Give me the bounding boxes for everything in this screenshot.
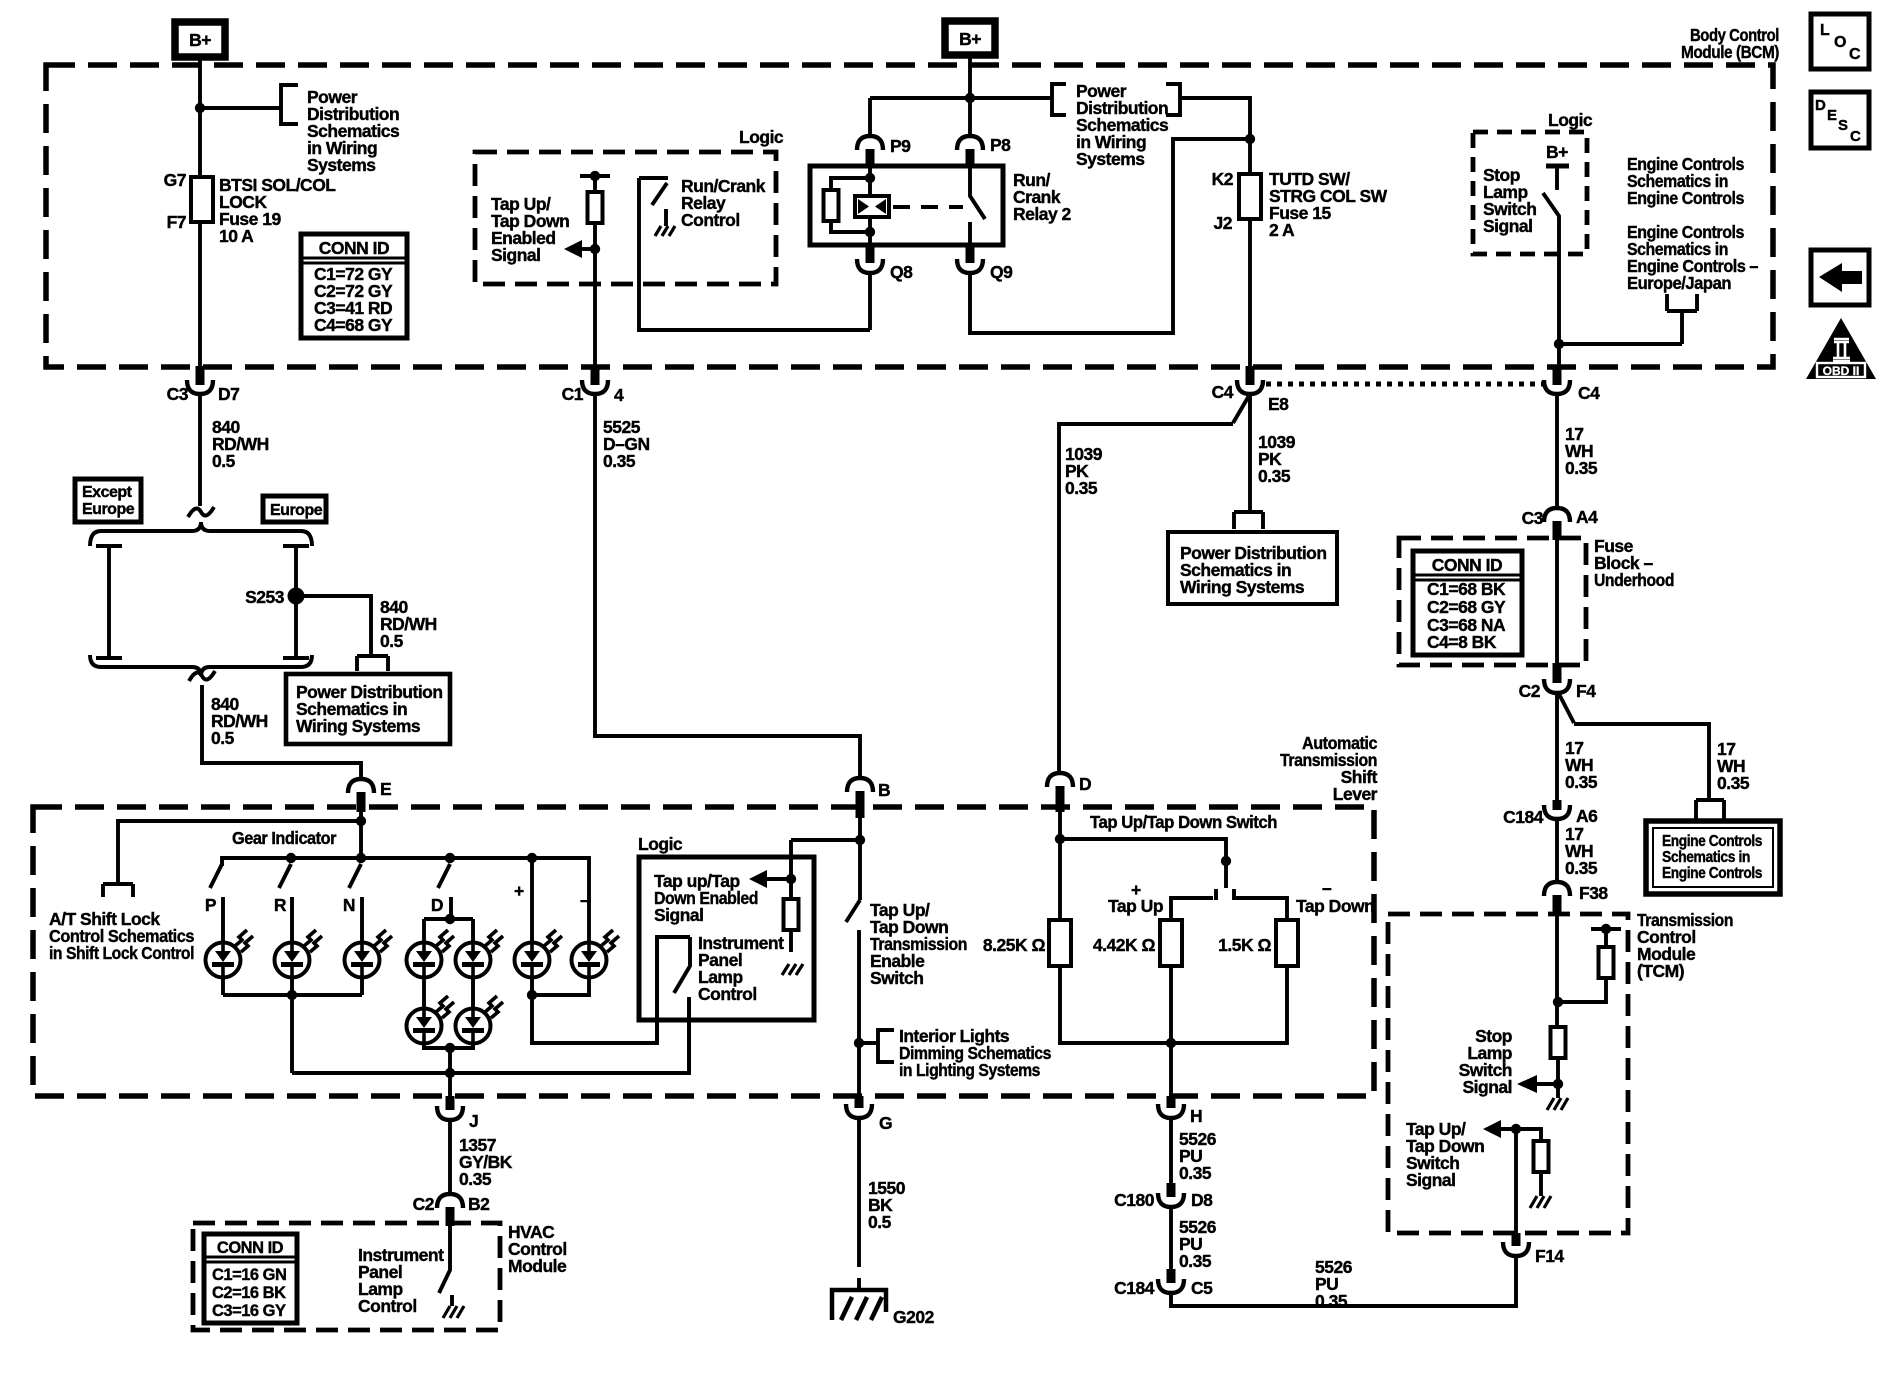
LED D1 — [407, 930, 455, 978]
svg-text:C: C — [1850, 128, 1861, 145]
svg-text:+: + — [514, 881, 524, 901]
svg-text:Europe/Japan: Europe/Japan — [1627, 273, 1731, 293]
svg-text:C: C — [1849, 46, 1861, 63]
wire D column to J — [448, 1073, 452, 1106]
svg-text:Lever: Lever — [1333, 784, 1378, 804]
resistor 1.5K — [1276, 920, 1298, 966]
wire to P9 and to bracket — [870, 98, 1052, 136]
junction interior lights — [854, 1038, 864, 1048]
svg-text:4: 4 — [614, 385, 624, 405]
svg-text:E: E — [1827, 107, 1837, 124]
svg-text:G: G — [879, 1113, 892, 1133]
box Power Distribution Schematics in Wiring Systems (middle) — [1168, 532, 1337, 604]
B+ power terminal 2 — [945, 21, 995, 55]
bracket to power distribution box (left) — [357, 656, 388, 671]
wire F38 into TCM — [1555, 914, 1559, 1027]
bracket Europe/Japan reference — [1667, 294, 1697, 344]
bracket to power distribution box — [1234, 510, 1263, 529]
switch Tap Up/Tap Down transmission enable — [846, 900, 860, 1096]
svg-text:Control: Control — [698, 984, 757, 1004]
wire 5526 PU (H to D8) — [1169, 1118, 1173, 1183]
wire branch to power distribution bracket — [200, 106, 281, 110]
Fuse Block - Underhood dashed box — [1399, 538, 1586, 665]
terminal bar of enabled-signal line — [580, 174, 610, 178]
svg-text:0.5: 0.5 — [868, 1212, 892, 1232]
node junction on B+1 wire — [195, 103, 205, 113]
svg-text:Signal: Signal — [1483, 216, 1533, 236]
svg-text:0.35: 0.35 — [1565, 458, 1598, 478]
CONN ID table (BCM) — [301, 234, 407, 338]
svg-text:0.5: 0.5 — [380, 631, 404, 651]
connector C184/A6 — [1503, 800, 1598, 827]
brace top — [90, 522, 312, 546]
svg-text:C184: C184 — [1503, 807, 1544, 827]
B+ power terminal 1 — [175, 22, 225, 57]
svg-text:–: – — [1322, 878, 1332, 898]
icon back-arrow box — [1811, 250, 1869, 305]
switch D — [438, 864, 451, 919]
svg-text:C184: C184 — [1114, 1278, 1155, 1298]
svg-text:Q9: Q9 — [990, 262, 1013, 282]
svg-text:G7: G7 — [164, 170, 186, 190]
relay switch — [970, 166, 985, 245]
rocker switch contacts — [1171, 889, 1287, 920]
svg-text:Underhood: Underhood — [1594, 570, 1674, 590]
LED R — [275, 930, 323, 978]
icon OBD II triangle — [1806, 318, 1876, 379]
wire 1357 GY/BK — [448, 1120, 452, 1193]
arrow tap up/tap down enabled signal — [590, 244, 600, 254]
ground G202 — [832, 1278, 935, 1327]
switch R — [279, 864, 292, 943]
resistor 4.42K — [1160, 920, 1182, 966]
svg-text:(TCM): (TCM) — [1637, 961, 1684, 981]
svg-text:Europe: Europe — [82, 501, 135, 518]
LED D4 — [456, 996, 504, 1044]
svg-text:0.35: 0.35 — [1565, 858, 1598, 878]
Logic solid box (instrument panel lamp control) — [639, 857, 814, 1020]
wire B+2 down — [968, 57, 972, 98]
svg-text:0.5: 0.5 — [211, 728, 235, 748]
svg-text:Signal: Signal — [654, 905, 704, 925]
wire to H — [1169, 1043, 1173, 1096]
connector C180/D8 — [1114, 1183, 1213, 1210]
ground (TCM tap signal) — [1530, 1196, 1551, 1208]
wire bracket to K2 riser — [1180, 98, 1250, 139]
switch stop lamp — [1543, 193, 1559, 344]
svg-text:Systems: Systems — [1076, 149, 1145, 169]
icon DESC box — [1811, 92, 1869, 148]
connector P8 — [957, 98, 1011, 166]
LED plus — [515, 930, 563, 978]
svg-text:N: N — [343, 895, 355, 915]
svg-text:0.35: 0.35 — [1258, 466, 1291, 486]
break symbol (below brace) — [189, 671, 215, 681]
svg-text:B+: B+ — [959, 29, 981, 49]
connector C1/4 — [562, 366, 624, 405]
svg-text:Relay 2: Relay 2 — [1013, 204, 1072, 224]
svg-text:C1=16 GN: C1=16 GN — [212, 1266, 286, 1284]
svg-text:C180: C180 — [1114, 1190, 1155, 1210]
wire run/crank relay control output to Q8 — [639, 178, 870, 330]
fuse Fuse 19 10A (BTSI SOL/COL LOCK) — [191, 177, 213, 222]
switch instrument panel lamp control (HVAC) — [439, 1226, 452, 1306]
svg-text:Wiring Systems: Wiring Systems — [296, 716, 421, 736]
svg-text:Engine Controls: Engine Controls — [1662, 833, 1763, 850]
connector C2/F4 — [1519, 663, 1597, 701]
Logic dashed box (stop lamp switch signal) — [1473, 132, 1587, 254]
wire B+1 down to fuse 19 — [198, 59, 202, 366]
svg-text:Schematics in: Schematics in — [1662, 849, 1750, 866]
svg-text:J: J — [469, 1111, 478, 1131]
svg-text:Europe: Europe — [270, 502, 323, 519]
bracket to engine controls box — [1696, 800, 1724, 820]
svg-text:CONN ID: CONN ID — [319, 238, 389, 258]
alternate path right (Europe) with splice S253 — [283, 546, 309, 658]
TCM pull-up resistor — [1591, 929, 1621, 947]
connector F14 — [1503, 1233, 1564, 1266]
svg-text:B: B — [878, 780, 890, 800]
wire 1550 BK to G202 — [857, 1118, 861, 1267]
svg-text:Switch: Switch — [870, 968, 923, 988]
connector F38 — [1544, 882, 1608, 914]
svg-text:C2=68 GY: C2=68 GY — [1427, 597, 1506, 617]
wire stop lamp logic to C4 — [1559, 344, 1682, 366]
connector H — [1158, 1096, 1202, 1126]
svg-text:D: D — [431, 895, 443, 915]
Logic dashed box (Run/Crank relay control) — [475, 152, 776, 284]
gear indicator cathode bus (P R N) — [223, 993, 362, 997]
LED minus — [572, 930, 620, 978]
svg-text:Logic: Logic — [638, 834, 683, 854]
CONN ID table (HVAC) — [204, 1234, 297, 1323]
svg-text:S: S — [1838, 117, 1848, 134]
svg-text:Tap Down: Tap Down — [1296, 896, 1374, 916]
wire B to transmission enable switch — [858, 818, 862, 900]
svg-text:–: – — [580, 890, 590, 910]
svg-text:C3=16 GY: C3=16 GY — [212, 1302, 286, 1320]
svg-text:F14: F14 — [1535, 1246, 1564, 1266]
svg-text:Module: Module — [508, 1256, 567, 1276]
svg-text:0.35: 0.35 — [459, 1169, 492, 1189]
wire + column — [530, 858, 534, 943]
switch P — [210, 864, 223, 943]
connector Q8 — [857, 245, 913, 330]
resistor 8.25K — [1049, 920, 1071, 966]
svg-text:Tap Up: Tap Up — [1108, 896, 1163, 916]
wire 17 WH (A6 to F38) — [1555, 819, 1559, 880]
svg-text:8.25K Ω: 8.25K Ω — [983, 935, 1046, 955]
svg-text:Except: Except — [82, 484, 133, 501]
svg-text:Wiring Systems: Wiring Systems — [1180, 577, 1305, 597]
svg-text:G202: G202 — [893, 1307, 935, 1327]
TCM tap signal resistor — [1534, 1141, 1549, 1172]
wire +/- bus to lamp control switch — [532, 937, 690, 1043]
svg-text:C3: C3 — [1522, 508, 1544, 528]
wire 5526 PU to F14 — [1171, 1256, 1516, 1306]
arrow stop lamp switch signal — [1536, 1082, 1558, 1086]
svg-text:C4: C4 — [1212, 382, 1234, 402]
svg-text:R: R — [274, 895, 287, 915]
connector C3/A4 — [1522, 507, 1599, 540]
svg-text:D8: D8 — [1191, 1190, 1213, 1210]
svg-text:J2: J2 — [1214, 213, 1233, 233]
wire 5526 PU (D8 to C5) — [1169, 1207, 1173, 1269]
arrow tap up/tap down enabled signal out — [749, 870, 767, 888]
svg-text:B+: B+ — [189, 30, 211, 50]
dotted connector line between C4 cavities — [1266, 382, 1543, 387]
svg-text:Signal: Signal — [1406, 1170, 1456, 1190]
relay coil symbol — [855, 196, 889, 217]
svg-text:Q8: Q8 — [890, 262, 913, 282]
svg-text:Engine Controls: Engine Controls — [1662, 865, 1763, 882]
svg-text:C4=68 GY: C4=68 GY — [314, 315, 393, 335]
wire 17 WH branch to engine controls — [1559, 694, 1709, 799]
relay Run/Crank Relay 2 box — [810, 166, 1003, 245]
svg-text:C4: C4 — [1578, 383, 1600, 403]
wire - column — [587, 866, 591, 943]
svg-text:P9: P9 — [890, 136, 911, 156]
svg-text:in Lighting Systems: in Lighting Systems — [899, 1060, 1041, 1080]
box Europe — [263, 496, 326, 522]
wire tap signal to F14 — [1514, 1129, 1518, 1233]
svg-text:C5: C5 — [1191, 1278, 1213, 1298]
svg-text:P8: P8 — [990, 135, 1011, 155]
LED D3 — [407, 996, 455, 1044]
resistor (tap up/tap down enabled signal) — [593, 176, 597, 192]
svg-text:4.42K Ω: 4.42K Ω — [1093, 935, 1156, 955]
svg-text:0.5: 0.5 — [212, 451, 236, 471]
svg-text:in Shift Lock Control: in Shift Lock Control — [49, 943, 194, 963]
svg-text:C3: C3 — [167, 384, 189, 404]
wire enabled-signal feed from B — [791, 840, 860, 899]
svg-text:L: L — [1820, 22, 1830, 39]
svg-text:C2=16 BK: C2=16 BK — [212, 1284, 286, 1302]
svg-text:H: H — [1190, 1106, 1202, 1126]
+/- cathode bus — [532, 978, 589, 995]
svg-text:0.35: 0.35 — [1179, 1251, 1212, 1271]
bracket power distribution (left) — [281, 85, 298, 124]
svg-text:1.5K Ω: 1.5K Ω — [1218, 935, 1271, 955]
arrow tap up/tap down switch signal — [1483, 1120, 1501, 1138]
wire 17 WH (F4 to A6) — [1555, 693, 1559, 805]
LED D2 — [456, 930, 504, 978]
svg-text:Signal: Signal — [1462, 1077, 1512, 1097]
svg-text:O: O — [1834, 34, 1846, 51]
wire E feed and A/T shift lock branch — [118, 812, 361, 882]
connector C4 (right) — [1544, 366, 1600, 403]
svg-text:0.35: 0.35 — [1565, 772, 1598, 792]
ground (run/crank relay control) — [655, 226, 675, 236]
svg-text:C4=8 BK: C4=8 BK — [1427, 632, 1497, 652]
connector E — [348, 779, 391, 812]
alternate path left (except Europe) — [96, 546, 122, 658]
svg-text:C1: C1 — [562, 384, 584, 404]
svg-text:2 A: 2 A — [1269, 220, 1295, 240]
CONN ID table (fuse block) — [1413, 551, 1522, 655]
svg-text:F38: F38 — [1579, 883, 1608, 903]
resistor (enabled signal pull) — [784, 899, 799, 930]
wire branch to rocker common — [1060, 839, 1226, 888]
connector J — [437, 1096, 478, 1131]
svg-text:F7: F7 — [167, 212, 186, 232]
wire 1039 PK (to D) — [1059, 394, 1250, 771]
svg-text:Systems: Systems — [307, 155, 376, 175]
resistor bottoms bus — [1060, 966, 1287, 1043]
LED P — [206, 930, 254, 978]
gear indicator supply bus — [222, 858, 589, 866]
box Except Europe — [75, 479, 141, 522]
TCM stop lamp sense resistor — [1551, 1027, 1566, 1058]
HVAC Control Module dashed box — [193, 1223, 500, 1330]
connector C3/D7 — [167, 366, 240, 404]
box Engine Controls Schematics in Engine Controls — [1646, 821, 1780, 894]
svg-text:0.35: 0.35 — [1717, 773, 1750, 793]
svg-text:CONN ID: CONN ID — [217, 1239, 284, 1257]
svg-text:B+: B+ — [1546, 142, 1568, 162]
wire 840 RD/WH down — [198, 394, 202, 506]
svg-text:Control: Control — [681, 210, 740, 230]
svg-text:C2: C2 — [413, 1194, 435, 1214]
svg-text:E8: E8 — [1268, 394, 1289, 414]
bracket interior lights — [878, 1030, 894, 1062]
box Power Distribution Schematics in Wiring Systems (left) — [286, 674, 450, 744]
svg-text:Control: Control — [358, 1296, 417, 1316]
connector C184/C5 — [1114, 1269, 1213, 1298]
Transmission Control Module dashed box — [1388, 914, 1628, 1233]
svg-text:B2: B2 — [468, 1194, 490, 1214]
svg-text:C1=68 BK: C1=68 BK — [1427, 579, 1506, 599]
svg-text:K2: K2 — [1212, 169, 1234, 189]
svg-text:0.35: 0.35 — [1065, 478, 1098, 498]
svg-text:D7: D7 — [218, 384, 239, 404]
svg-text:0.35: 0.35 — [603, 451, 636, 471]
connector P9 — [857, 136, 911, 166]
D parallel LED pair — [445, 914, 455, 924]
connector B — [847, 778, 890, 818]
svg-text:A6: A6 — [1576, 806, 1598, 826]
svg-text:0.35: 0.35 — [1315, 1291, 1348, 1311]
svg-text:Engine Controls: Engine Controls — [1627, 188, 1745, 208]
wire 840 RD/WH from S253 — [296, 596, 371, 654]
fuse Fuse 15 2A (TUTD SW/STRG COL SW) — [1248, 139, 1252, 174]
icon LOC box — [1811, 14, 1869, 69]
gear indicator bottom bus to lamp control — [292, 997, 689, 1073]
connector C4/E8 — [1212, 366, 1290, 414]
svg-text:A4: A4 — [1576, 507, 1598, 527]
wire 17 WH (C4 to A4) — [1555, 394, 1559, 506]
switch instrument panel lamp control — [657, 937, 690, 1073]
connector D — [1047, 773, 1091, 812]
connector C2/B2 — [413, 1194, 491, 1226]
bracket pair power distribution (middle) — [1052, 84, 1180, 115]
svg-text:E: E — [380, 779, 391, 799]
svg-text:Logic: Logic — [739, 127, 784, 147]
ground (TCM stop lamp) — [1556, 1084, 1560, 1098]
wire 5525 D-GN — [595, 394, 860, 779]
svg-text:P: P — [205, 895, 217, 915]
wire through fuse block — [1555, 540, 1559, 663]
relay actuation dashes — [893, 205, 963, 209]
connector Q9 — [957, 139, 1250, 333]
svg-text:OBD II: OBD II — [1823, 364, 1860, 378]
svg-text:Tap Up/Tap Down Switch: Tap Up/Tap Down Switch — [1090, 812, 1277, 832]
Automatic Transmission Shift Lever dashed box — [33, 807, 1374, 1096]
LED N — [345, 930, 393, 978]
relay coil branch resistor — [831, 166, 870, 196]
switch N — [349, 864, 362, 943]
svg-text:Gear Indicator: Gear Indicator — [232, 828, 337, 848]
wire 840 RD/WH to E — [202, 685, 361, 777]
svg-text:Signal: Signal — [491, 245, 541, 265]
connector G — [846, 1096, 892, 1133]
svg-text:D: D — [1079, 774, 1091, 794]
svg-text:D: D — [1815, 97, 1826, 114]
ground (logic box) — [782, 964, 803, 975]
svg-text:Module (BCM): Module (BCM) — [1681, 42, 1779, 62]
BCM dashed module box — [46, 65, 1773, 367]
break symbol (wire option) — [188, 507, 214, 517]
svg-text:10 A: 10 A — [219, 226, 254, 246]
svg-text:0.35: 0.35 — [1179, 1163, 1212, 1183]
wire D to resistors — [1058, 812, 1062, 920]
svg-text:Logic: Logic — [1548, 110, 1593, 130]
svg-text:F4: F4 — [1576, 681, 1596, 701]
bracket A/T shift lock — [103, 884, 133, 897]
svg-text:CONN ID: CONN ID — [1432, 555, 1502, 575]
svg-text:C2: C2 — [1519, 681, 1541, 701]
ground (HVAC) — [443, 1306, 464, 1318]
wire 1039 PK (to power distribution) — [1248, 394, 1252, 510]
brace bottom — [90, 655, 312, 676]
switch Run/Crank relay control — [639, 176, 668, 180]
svg-text:S253: S253 — [245, 587, 285, 607]
